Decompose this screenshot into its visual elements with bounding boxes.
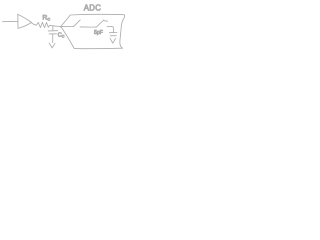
svg-text:5pF: 5pF [94, 30, 103, 36]
wire amp output to resistor [31, 23, 36, 26]
switch S1 arm [74, 20, 81, 27]
resistor RC [37, 22, 50, 27]
wire to sampling capacitor [107, 27, 113, 33]
switch S2 contact tick [104, 20, 108, 23]
ADC box left edge lower slant [61, 27, 74, 49]
wire inside box [61, 26, 74, 28]
wire input [3, 20, 19, 22]
capacitor CC lead down [52, 26, 54, 30]
svg-text:RC: RC [42, 14, 50, 21]
ADC box top edge [70, 13, 124, 16]
svg-text:CC: CC [58, 33, 65, 39]
capacitor CC plates [48, 31, 58, 34]
op-amp U1 buffer [18, 14, 32, 28]
svg-text:ADC: ADC [84, 3, 101, 12]
ground arrow below CC [49, 43, 55, 48]
ADC box left edge upper slant [60, 15, 70, 27]
switch S2 arm [96, 20, 104, 27]
wire between switches [80, 26, 96, 28]
capacitor 5pF plates [109, 33, 117, 36]
capacitor CC lower lead [52, 34, 54, 43]
ADC box bottom edge [74, 47, 122, 49]
wire resistor to node A [50, 25, 61, 26]
ground arrow below 5pF [110, 38, 116, 43]
ADC box right edge [120, 15, 125, 49]
